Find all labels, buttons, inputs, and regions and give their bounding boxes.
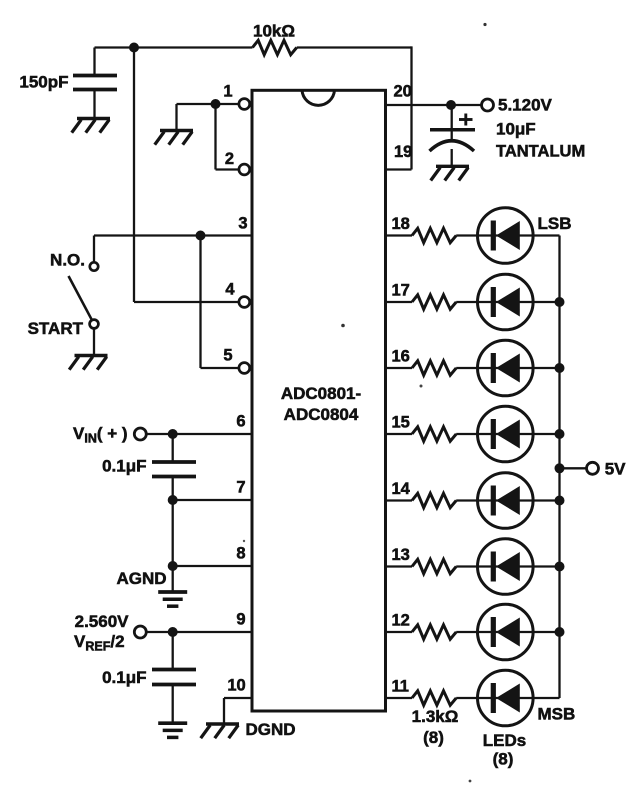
svg-text:150pF: 150pF xyxy=(19,72,68,91)
svg-text:(8): (8) xyxy=(493,750,514,769)
chip U1 label ADC0801-ADC0804 xyxy=(281,384,361,424)
svg-text:20: 20 xyxy=(394,82,412,100)
resistor 1.3k ohm for pin 16 xyxy=(412,361,456,375)
wire pin 8 AGND xyxy=(173,565,251,567)
svg-text:VIN( + ): VIN( + ) xyxy=(73,424,128,446)
pin 15 number label xyxy=(392,413,410,431)
svg-text:1: 1 xyxy=(223,82,232,100)
wire VCC junction to C4 plate xyxy=(451,105,453,140)
pin 2 number label xyxy=(225,150,234,168)
pin 4 input circle xyxy=(239,297,250,308)
svg-text:MSB: MSB xyxy=(538,704,576,723)
pin 10 number label xyxy=(227,676,245,694)
resistor 1.3k ohm for pin 14 xyxy=(412,493,456,507)
wire pin3 junction down to pin 5 INTR xyxy=(201,236,240,369)
junction 5V bus at pin 14 xyxy=(555,496,565,506)
wire resistor to LED (pin 12) xyxy=(456,631,477,633)
svg-text:18: 18 xyxy=(392,215,410,233)
wire pin 3 down to switch N.O. contact xyxy=(93,236,95,263)
wire pin 10 DGND xyxy=(224,698,251,723)
label DGND xyxy=(246,720,296,739)
junction clock node (150pF / CLK IN tap) xyxy=(129,43,139,53)
wire pin 4 CLK IN xyxy=(134,301,239,303)
wire resistor to LED (pin 14) xyxy=(456,499,477,501)
wire LED to 5V bus (pin 17) xyxy=(533,301,560,303)
svg-text:7: 7 xyxy=(236,478,245,496)
LED diode for pin 12 (cathode left) xyxy=(478,604,534,660)
svg-text:2.560V: 2.560V xyxy=(75,612,130,631)
capacitor C3 0.1uF xyxy=(152,670,196,685)
wire LED to 5V bus (pin 14) xyxy=(533,499,560,501)
wire C4 to ground xyxy=(451,149,453,165)
capacitor C4 10uF tantalum xyxy=(430,130,476,151)
pin 18 number label xyxy=(392,215,410,233)
switch SW1 N.O. contact xyxy=(90,262,98,270)
label 1.3k ohm value xyxy=(412,707,459,726)
terminal VIN(+) input xyxy=(134,428,146,440)
resistor R1 10k ohm xyxy=(253,40,297,54)
svg-text:5.120V: 5.120V xyxy=(498,96,553,115)
wire pin 7 xyxy=(173,499,251,501)
svg-text:12: 12 xyxy=(392,611,410,629)
junction 5V bus at pin 17 xyxy=(555,297,565,307)
switch SW1 START contact xyxy=(90,320,99,329)
junction 5V bus at pin 13 xyxy=(555,562,565,572)
wire pin 20 VCC to supply terminal xyxy=(387,104,482,106)
wire pin 12 to resistor xyxy=(387,631,412,633)
wire pin 11 to resistor xyxy=(387,697,412,699)
label 0.1uF value (lower) xyxy=(102,668,146,687)
LED diode for pin 17 (cathode left) xyxy=(478,274,534,330)
pin 5 input circle xyxy=(239,363,250,374)
junction 5V bus at pin 16 xyxy=(555,363,565,373)
junction VCC node xyxy=(446,100,456,110)
resistor 1.3k ohm for pin 12 xyxy=(412,625,456,639)
ground chassis below 150pF xyxy=(72,119,110,133)
ground chassis below C4 xyxy=(431,166,469,180)
pin 3 number label xyxy=(238,214,247,232)
polarity plus sign for C4 xyxy=(459,114,473,126)
pin 1 number label xyxy=(223,82,232,100)
svg-text:2: 2 xyxy=(225,150,234,168)
wire VIN junction to C2 top plate xyxy=(172,434,174,462)
svg-text:16: 16 xyxy=(392,347,410,365)
label VREF/2 xyxy=(74,632,125,654)
pin 4 number label xyxy=(225,280,235,298)
wire C3 bottom plate to earth ground xyxy=(172,685,174,723)
wire pin 13 to resistor xyxy=(387,565,412,567)
resistor 1.3k ohm for pin 18 xyxy=(412,228,456,242)
svg-text:N.O.: N.O. xyxy=(50,250,85,269)
ground chassis DGND xyxy=(201,724,239,738)
pin 8 number label xyxy=(236,544,245,562)
LED diode for pin 16 (cathode left) xyxy=(478,340,534,396)
junction 5V bus at pin 15 xyxy=(555,429,565,439)
ground chassis below START switch xyxy=(69,356,107,370)
label 10uF value xyxy=(496,119,536,138)
junction pin1/pin2 node xyxy=(211,99,221,109)
svg-text:10μF: 10μF xyxy=(496,119,536,138)
pin 11 number label xyxy=(392,677,409,695)
wire pin 6 VIN(+) xyxy=(147,433,251,435)
svg-text:0.1μF: 0.1μF xyxy=(102,456,146,475)
svg-text:10: 10 xyxy=(227,676,245,694)
svg-text:5: 5 xyxy=(223,346,232,364)
svg-text:(8): (8) xyxy=(423,728,444,747)
wire resistor to LED (pin 13) xyxy=(456,565,477,567)
wire pin 17 to resistor xyxy=(387,301,412,303)
svg-text:DGND: DGND xyxy=(246,720,296,739)
wire resistor to LED (pin 16) xyxy=(456,367,477,369)
svg-text:9: 9 xyxy=(236,610,245,628)
ground earth AGND xyxy=(158,592,187,606)
wire resistor to LED (pin 15) xyxy=(456,433,477,435)
junction VIN node xyxy=(168,429,178,439)
wire LED to 5V bus (pin 15) xyxy=(533,433,560,435)
svg-text:1.3kΩ: 1.3kΩ xyxy=(412,707,459,726)
label 5.120V xyxy=(498,96,553,115)
wire down to pin 19 CLK R xyxy=(387,46,412,169)
wire resistor to LED (pin 17) xyxy=(456,301,477,303)
terminal VREF/2 input xyxy=(134,626,146,638)
svg-text:8: 8 xyxy=(236,544,245,562)
LED diode for pin 18 (cathode left) xyxy=(478,208,534,264)
wire VREF junction to C3 top plate xyxy=(172,632,174,670)
svg-text:3: 3 xyxy=(238,214,247,232)
svg-text:TANTALUM: TANTALUM xyxy=(496,142,585,160)
junction VREF node xyxy=(168,627,178,637)
wire LED to 5V bus (pin 11) xyxy=(533,697,560,699)
wire pin 15 to resistor xyxy=(387,433,412,435)
pin 6 number label xyxy=(236,412,245,430)
ground chassis for pins 1 and 2 xyxy=(155,131,193,145)
switch SW1 arm xyxy=(69,276,92,320)
wire pin 16 to resistor xyxy=(387,367,412,369)
label MSB xyxy=(538,704,576,723)
pin 13 number label xyxy=(392,546,410,564)
terminal 5.120V supply xyxy=(482,99,494,111)
pin 16 number label xyxy=(392,347,410,365)
terminal 5V supply xyxy=(587,462,599,474)
wire resistor to LED (pin 11) xyxy=(456,697,477,699)
wire LED to 5V bus (pin 18) xyxy=(533,234,560,236)
resistor 1.3k ohm for pin 15 xyxy=(412,427,456,441)
label 150pF value xyxy=(19,72,68,91)
wire pin 3 WR to switch xyxy=(94,234,251,236)
wire LED to 5V bus (pin 13) xyxy=(533,565,560,567)
svg-text:11: 11 xyxy=(392,677,409,695)
wire START contact to ground xyxy=(93,328,95,354)
wire 150pF bottom plate to ground xyxy=(93,90,95,118)
chip U1 ADC0801-ADC0804 body xyxy=(252,90,386,711)
pin 1 input circle xyxy=(239,99,250,110)
svg-text:ADC0804: ADC0804 xyxy=(284,405,359,424)
label AGND xyxy=(116,569,166,588)
svg-text:AGND: AGND xyxy=(116,569,166,588)
svg-text:5V: 5V xyxy=(605,460,626,479)
junction pin 7 node xyxy=(168,495,178,505)
wire junction to ground stub (pins 1-2) xyxy=(177,104,216,129)
label START xyxy=(28,319,84,338)
junction AGND node xyxy=(168,561,178,571)
wire resistor to LED (pin 18) xyxy=(456,234,477,236)
resistor 1.3k ohm for pin 17 xyxy=(412,295,456,309)
wire LED to 5V bus (pin 12) xyxy=(533,631,560,633)
pin 7 number label xyxy=(236,478,245,496)
svg-text:13: 13 xyxy=(392,546,410,564)
LED diode for pin 11 (cathode left) xyxy=(478,670,534,726)
capacitor C1 150pF xyxy=(73,76,117,90)
pin 2 input circle xyxy=(239,164,250,175)
wire C2 bottom plate down to pin 8 node xyxy=(172,477,174,567)
pin 14 number label xyxy=(392,480,411,498)
label (8) LED count xyxy=(493,750,514,769)
wire pin 14 to resistor xyxy=(387,499,412,501)
svg-text:6: 6 xyxy=(236,412,245,430)
label (8) resistor count xyxy=(423,728,444,747)
wire clock junction down to pin 4 CLK IN xyxy=(133,48,135,303)
pin 12 number label xyxy=(392,611,410,629)
pin 19 number label xyxy=(394,143,412,161)
wire 5V tap to terminal xyxy=(560,467,587,469)
svg-text:START: START xyxy=(28,319,84,338)
svg-text:LSB: LSB xyxy=(538,214,572,233)
wire clock rail right segment (10k to corner) xyxy=(297,46,412,48)
svg-text:19: 19 xyxy=(394,143,412,161)
junction pin3/pin5 node xyxy=(196,231,206,241)
wire LED to 5V bus (pin 16) xyxy=(533,367,560,369)
junction 5V bus at pin 12 xyxy=(555,627,565,637)
label 0.1uF value (upper) xyxy=(102,456,146,475)
svg-text:4: 4 xyxy=(225,280,235,298)
svg-text:15: 15 xyxy=(392,413,410,431)
label 2.560V xyxy=(75,612,130,631)
label 5V xyxy=(605,460,626,479)
wire clock rail left segment (150pF junction to 10k resistor) xyxy=(95,46,253,48)
label TANTALUM xyxy=(496,142,585,160)
svg-text:14: 14 xyxy=(392,480,411,498)
label VIN(+) xyxy=(73,424,128,446)
wire pin1 junction down to pin 2 RD xyxy=(216,104,240,170)
svg-text:10kΩ: 10kΩ xyxy=(253,22,295,41)
label 10k ohm value xyxy=(253,22,295,41)
label LSB xyxy=(538,214,572,233)
svg-text:0.1μF: 0.1μF xyxy=(102,668,146,687)
capacitor C2 0.1uF xyxy=(152,462,196,477)
LED diode for pin 15 (cathode left) xyxy=(478,406,534,462)
ground earth below C3 xyxy=(158,723,187,737)
svg-text:VREF/2: VREF/2 xyxy=(74,632,125,654)
label N.O. xyxy=(50,250,85,269)
svg-text:ADC0801-: ADC0801- xyxy=(281,384,361,403)
pin 20 number label xyxy=(394,82,412,100)
wire pin 9 VREF/2 xyxy=(147,631,251,633)
svg-text:LEDs: LEDs xyxy=(483,731,526,750)
LED diode for pin 13 (cathode left) xyxy=(478,539,534,595)
wire pin 18 to resistor xyxy=(387,234,412,236)
pin 9 number label xyxy=(236,610,245,628)
wire clock rail to 150pF top plate xyxy=(93,48,95,76)
svg-text:17: 17 xyxy=(392,281,410,299)
resistor 1.3k ohm for pin 11 xyxy=(412,691,456,705)
LED diode for pin 14 (cathode left) xyxy=(478,473,534,529)
wire pin 1 CS to junction xyxy=(216,103,240,105)
wire AGND node to earth ground xyxy=(172,566,174,591)
resistor 1.3k ohm for pin 13 xyxy=(412,559,456,573)
pin 5 number label xyxy=(223,346,232,364)
junction 5V bus tap xyxy=(555,463,565,473)
label LEDs xyxy=(483,731,526,750)
pin 17 number label xyxy=(392,281,410,299)
wire 5V bus vertical xyxy=(558,236,560,699)
